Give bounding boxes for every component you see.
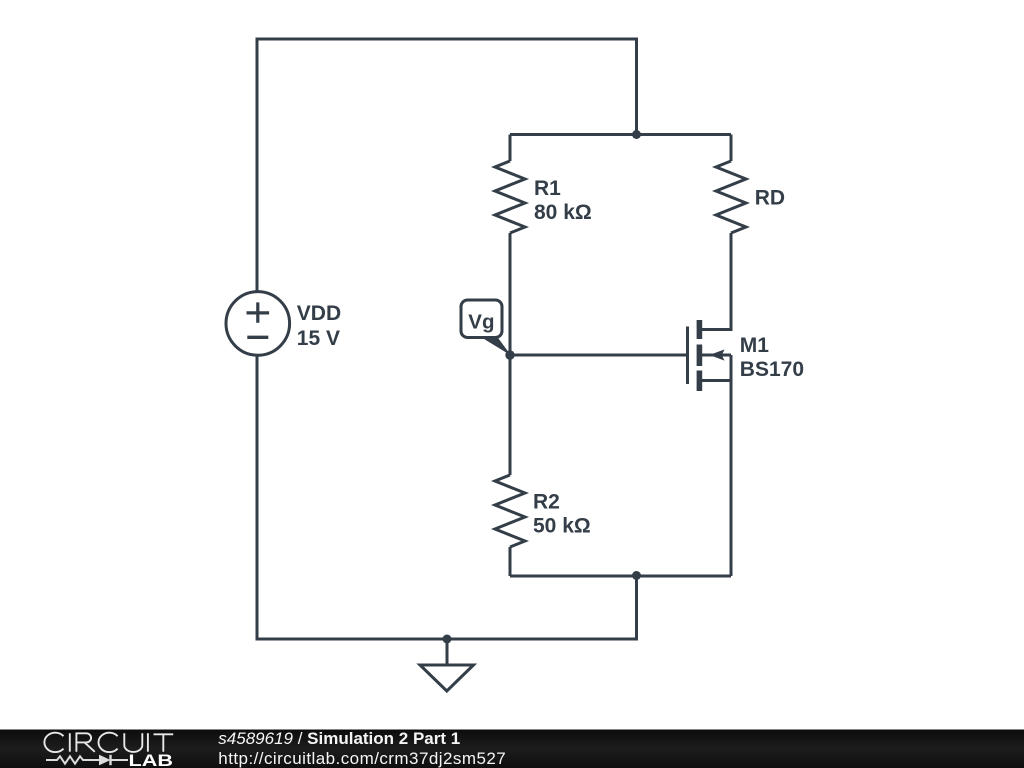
transistor M1 channel bars [697, 320, 703, 339]
wire M1 body lead [702, 354, 731, 357]
wire RD bottom lead to M1 drain [702, 233, 731, 330]
svg-text:s4589619 / Simulation 2 Part 1: s4589619 / Simulation 2 Part 1 [218, 729, 460, 748]
logo diode triangle [99, 755, 111, 766]
svg-text:80 kΩ: 80 kΩ [534, 201, 592, 224]
logo CIRCUIT outline letters [44, 733, 173, 752]
VDD minus sign [247, 336, 268, 339]
svg-text:M1: M1 [740, 334, 769, 357]
VDD plus sign [247, 302, 270, 322]
node Vg dot [505, 350, 514, 359]
svg-text:RD: RD [755, 187, 785, 210]
node dot at ground junction [443, 635, 452, 644]
node dot at top rail junction [632, 130, 641, 139]
svg-text:R2: R2 [533, 491, 560, 514]
svg-text:VDD: VDD [297, 302, 341, 325]
wire rail R1-top to RD-top [510, 133, 731, 136]
resistor R1 [495, 161, 525, 233]
wire R2 bottom lead [509, 547, 512, 576]
wire gate: Vg node to M1 gate [510, 354, 688, 357]
wire R1 bottom to Vg node to R2 top [509, 233, 512, 475]
node dot at bottom rail junction [632, 571, 641, 580]
ground symbol triangle [420, 665, 474, 691]
svg-text:50 kΩ: 50 kΩ [533, 515, 591, 538]
wire ground stem [446, 639, 449, 665]
node label Vg bubble [480, 337, 511, 356]
transistor M1 gate bar [686, 327, 689, 385]
resistor RD [716, 161, 746, 233]
logo resistor-diode glyph [46, 755, 128, 765]
wire bottom loop: VDD bottom to ground rail to node column [257, 355, 637, 639]
svg-text:15 V: 15 V [297, 327, 340, 350]
svg-text:http://circuitlab.com/crm37dj2: http://circuitlab.com/crm37dj2sm527 [218, 749, 506, 768]
svg-text:R1: R1 [534, 177, 561, 200]
svg-text:BS170: BS170 [740, 358, 804, 381]
resistor R2 [495, 475, 525, 547]
wire M1 right column down to bottom rail [730, 355, 733, 576]
wire M1 source lead [702, 379, 731, 382]
wire rail R2-bottom to M1 source column [510, 575, 731, 578]
voltage source VDD circle [226, 292, 290, 356]
wire RD top lead [730, 135, 733, 162]
wire R1 top lead [509, 135, 512, 162]
transistor M1 body arrow [710, 349, 725, 360]
svg-text:Vg: Vg [468, 311, 494, 334]
wire top loop: VDD top to node column [257, 39, 637, 292]
svg-text:LAB: LAB [129, 752, 174, 768]
